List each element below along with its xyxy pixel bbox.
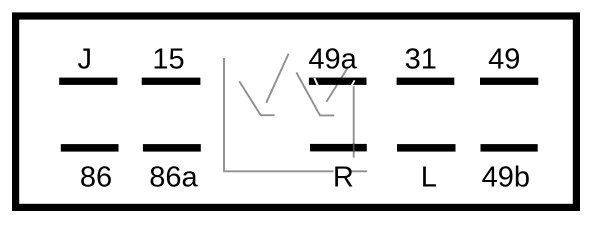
switch 1 movable blade contact: [239, 81, 274, 115]
svg-text:86a: 86a: [149, 162, 198, 194]
terminal bar 31: [397, 78, 455, 85]
white notch at left end of terminal bar 49a: [314, 78, 318, 86]
terminal bar 86: [61, 144, 119, 152]
switch 1 actuating slash: [266, 54, 288, 103]
wire: horizontal run right of label R: [351, 170, 367, 172]
wire: vertical stub below terminal bar R: [353, 152, 355, 158]
svg-text:R: R: [333, 162, 354, 194]
svg-text:L: L: [421, 162, 437, 194]
svg-text:49a: 49a: [308, 44, 357, 76]
svg-text:31: 31: [405, 44, 437, 76]
svg-text:15: 15: [152, 44, 184, 76]
terminal bar J: [59, 78, 117, 85]
svg-text:J: J: [78, 44, 93, 76]
svg-text:49: 49: [488, 44, 520, 76]
terminal bar 49b: [481, 144, 538, 152]
white notch at right end of terminal bar 49a: [351, 80, 354, 86]
terminal bar 15: [142, 78, 201, 85]
wire: vertical from terminal 49a down to terminal R: [353, 86, 355, 144]
svg-text:86: 86: [80, 162, 112, 194]
terminal bar R: [310, 144, 367, 152]
terminal bar 49: [480, 78, 538, 85]
wire: vertical crossing over terminal bar R: [353, 144, 355, 153]
switch 2 movable blade contact: [296, 73, 334, 116]
switch 2 actuating slash crossing terminal 49a: [327, 69, 348, 102]
relay housing frame: [16, 16, 577, 207]
svg-text:49b: 49b: [482, 162, 530, 194]
wire: left vertical feed with bottom horizontal run to terminal R: [224, 58, 334, 171]
terminal bar L: [397, 144, 456, 152]
terminal bar 49a: [309, 78, 367, 85]
terminal bar 86a: [143, 144, 201, 152]
